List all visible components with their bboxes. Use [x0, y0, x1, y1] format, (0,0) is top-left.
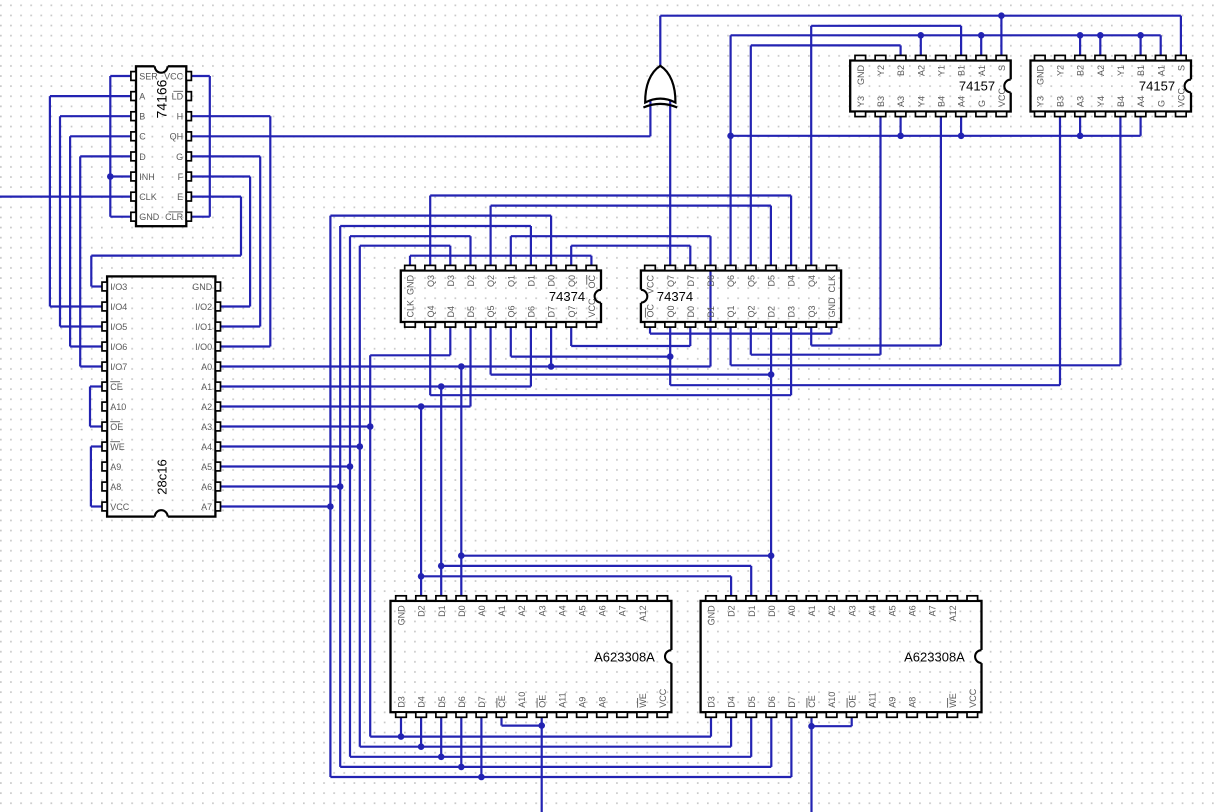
pin A5 (top 10): [887, 596, 898, 601]
pin ~OE (left 8): [102, 422, 107, 431]
svg-text:WE: WE: [110, 442, 125, 452]
svg-text:OE: OE: [537, 695, 547, 708]
svg-text:I/O3: I/O3: [110, 282, 127, 292]
pin A1 (right 6): [215, 382, 220, 391]
svg-text:74166: 74166: [154, 79, 170, 118]
svg-text:A8: A8: [110, 482, 121, 492]
pin A0 (right 5): [215, 362, 220, 371]
svg-text:D4: D4: [787, 275, 797, 287]
svg-text:A2: A2: [916, 65, 926, 76]
svg-text:C: C: [139, 132, 146, 142]
pin ~CLR (right 8): [186, 212, 191, 221]
wire 74374a.Q5 to 74374b.D2 / RAM2 D0: [491, 327, 771, 596]
junction dots of wire 74374b.Q6 select bus to mux A/B inputs: [727, 32, 1144, 139]
wire 74374b OC-GND tie: [650, 327, 831, 334]
pin D6 (bottom 4): [766, 712, 777, 717]
svg-text:D4: D4: [727, 696, 737, 708]
svg-text:S: S: [997, 65, 1007, 71]
pin I/O5 (left 3): [102, 322, 107, 331]
wire 74374b.Q4 to 74157a.B1: [811, 26, 961, 266]
pin B4 (bottom 5): [1115, 112, 1126, 117]
wire 74374b.Q2 to 74157a.B3: [751, 117, 881, 355]
svg-text:A8: A8: [598, 697, 608, 708]
pin A10 (bottom 7): [516, 712, 527, 717]
wire net A4 / RAM D4 rail: [220, 447, 731, 747]
pin nc (bottom 12): [617, 712, 628, 717]
pin D4 (bottom 2): [726, 712, 737, 717]
pin D5 (bottom 3): [436, 712, 447, 717]
svg-text:CE: CE: [807, 695, 817, 708]
pin ~OC (bottom 1): [645, 322, 656, 327]
svg-text:A12: A12: [638, 605, 648, 621]
svg-text:74157: 74157: [1139, 78, 1175, 93]
pin C (left 4): [131, 132, 136, 141]
svg-text:VCC: VCC: [646, 275, 656, 295]
svg-text:VCC: VCC: [110, 502, 130, 512]
pin Q4 (bottom 2): [425, 322, 436, 327]
svg-text:Y2: Y2: [876, 65, 886, 76]
pin D7 (bottom 5): [786, 712, 797, 717]
svg-text:VCC: VCC: [1176, 87, 1186, 107]
pin nc (top 14): [967, 596, 978, 601]
svg-text:A623308A: A623308A: [904, 650, 965, 665]
wire 74374a.Q1 to 74374b.D6: [511, 236, 711, 265]
pin Q7 (bottom 9): [566, 322, 577, 327]
svg-text:A2: A2: [1096, 65, 1106, 76]
svg-text:D6: D6: [767, 696, 777, 708]
svg-text:VCC: VCC: [997, 87, 1007, 107]
pin B3 (bottom 2): [1055, 112, 1066, 117]
pin D4 (bottom 3): [445, 322, 456, 327]
wire 74166.A to 28c16.I/O4: [50, 96, 131, 306]
pin VCC (top 1): [645, 265, 656, 270]
pin Q3 (top 2): [425, 265, 436, 270]
pin Y3 (bottom 1): [1035, 112, 1046, 117]
pin A11 (bottom 9): [557, 712, 568, 717]
pin D0 (top 4): [766, 596, 777, 601]
pin D3 (bottom 1): [706, 712, 717, 717]
pin Q4 (top 9): [806, 265, 817, 270]
svg-text:D5: D5: [466, 306, 476, 318]
svg-text:B3: B3: [1056, 96, 1066, 107]
junction dots of wire XOR output to mux S pins: [998, 12, 1005, 19]
svg-text:I/O5: I/O5: [110, 322, 127, 332]
pin G (bottom 7): [976, 112, 987, 117]
pin Q5 (bottom 5): [485, 322, 496, 327]
svg-text:Y3: Y3: [1035, 96, 1045, 107]
pin A7 (top 12): [617, 596, 628, 601]
svg-text:A11: A11: [557, 692, 567, 707]
junction dots of wire ground tie 74166 SER-INH-GND: [107, 173, 114, 180]
svg-text:Y4: Y4: [1096, 96, 1106, 107]
svg-text:A: A: [139, 92, 145, 102]
pin A3 (bottom 3): [895, 112, 906, 117]
pin F (right 6): [186, 172, 191, 181]
pin Q7 (top 2): [665, 265, 676, 270]
octal latch 74374 U4: [639, 265, 841, 327]
svg-text:74157: 74157: [959, 78, 995, 93]
svg-text:A1: A1: [1156, 65, 1166, 76]
pin Q1 (top 6): [505, 265, 516, 270]
junction dots of wire net A1: [438, 383, 445, 569]
svg-text:A0: A0: [477, 605, 487, 616]
pin A10 (left 7): [102, 402, 107, 411]
svg-text:I/O7: I/O7: [110, 362, 127, 372]
pin D2 (top 2): [416, 596, 427, 601]
svg-text:B1: B1: [957, 65, 967, 76]
wire XOR output to mux S pins: [660, 16, 1181, 67]
wire 74374a.D0 - 28c16.A7 - RAM D7 rail riser: [330, 216, 551, 777]
pin I/O6 (left 4): [102, 342, 107, 351]
svg-text:D1: D1: [747, 605, 757, 617]
svg-text:CLK: CLK: [139, 192, 157, 202]
svg-text:A10: A10: [110, 402, 126, 412]
junction dots of wire RAM2 CE-OE tie to bottom edge: [808, 723, 815, 730]
svg-text:A4: A4: [1136, 96, 1146, 107]
svg-text:Q3: Q3: [807, 305, 817, 317]
wire 74374b.Q3 to 74157a.B4: [811, 117, 941, 346]
pin A2 (top 4): [1095, 55, 1106, 60]
pin D7 (bottom 5): [476, 712, 487, 717]
pin A3 (right 8): [215, 422, 220, 431]
pin Q5 (top 6): [745, 265, 756, 270]
svg-text:H: H: [177, 112, 184, 122]
pin D3 (top 3): [445, 265, 456, 270]
quad mux 74157 U5: [850, 55, 1012, 116]
svg-text:28c16: 28c16: [155, 459, 170, 494]
svg-text:GND: GND: [397, 605, 407, 626]
pin D1 (top 3): [436, 596, 447, 601]
svg-text:A3: A3: [896, 96, 906, 107]
svg-text:GND: GND: [707, 605, 717, 626]
svg-text:A9: A9: [110, 462, 121, 472]
svg-text:A5: A5: [201, 462, 212, 472]
svg-text:A10: A10: [827, 692, 837, 708]
wire 74374a.D1 - 28c16.A6 - RAM D6 rail riser: [340, 226, 531, 767]
svg-text:Q2: Q2: [746, 305, 756, 317]
svg-text:CLR: CLR: [165, 212, 184, 222]
svg-text:CE: CE: [110, 382, 123, 392]
pin A7 (top 12): [927, 596, 938, 601]
svg-text:VCC: VCC: [968, 688, 978, 708]
svg-text:QH: QH: [170, 132, 184, 142]
wire 74374b.Q6 select bus to mux A/B inputs: [731, 35, 1161, 265]
pin A8 (left 11): [102, 482, 107, 491]
svg-text:B4: B4: [937, 96, 947, 107]
pin Q2 (bottom 6): [745, 322, 756, 327]
svg-text:B4: B4: [1116, 96, 1126, 107]
svg-text:Q7: Q7: [666, 275, 676, 287]
wire 74166.G to 28c16.I/O1: [192, 156, 261, 326]
svg-text:Q1: Q1: [726, 305, 736, 317]
pin S (top 8): [1176, 55, 1187, 60]
wire net A1: [220, 327, 751, 596]
pin A1 (top 6): [496, 596, 507, 601]
svg-text:B1: B1: [1136, 65, 1146, 76]
pin D3 (bottom 8): [786, 322, 797, 327]
pin A7 (right 12): [215, 502, 220, 511]
pin A2 (top 7): [516, 596, 527, 601]
wire 74374a.Q7 to 74374b.D0: [571, 327, 690, 346]
svg-text:B2: B2: [896, 65, 906, 76]
pin D2 (top 4): [465, 265, 476, 270]
svg-text:A1: A1: [497, 605, 507, 616]
wire net A6 / RAM D6 rail: [220, 487, 771, 767]
svg-text:S: S: [1176, 65, 1186, 71]
pin D2 (top 2): [726, 596, 737, 601]
pin GND (top 1): [706, 596, 717, 601]
pin I/O2 (right 2): [215, 302, 220, 311]
svg-text:E: E: [177, 192, 183, 202]
pin A2 (right 7): [215, 402, 220, 411]
pin E (right 7): [186, 192, 191, 201]
pin D5 (bottom 3): [746, 712, 757, 717]
pin ~WE (left 9): [102, 442, 107, 451]
pin I/O0 (right 4): [215, 342, 220, 351]
pin A4 (top 9): [557, 596, 568, 601]
pin G (right 5): [186, 152, 191, 161]
svg-text:Y1: Y1: [937, 65, 947, 76]
pin A2 (top 4): [915, 55, 926, 60]
wire 74374a.Q3 to 74374b.D4: [430, 196, 791, 266]
svg-text:Q2: Q2: [486, 275, 496, 287]
wire 74374b.Q1 to 74157b.B4: [731, 117, 1121, 366]
svg-text:G: G: [977, 100, 987, 107]
svg-text:Q0: Q0: [567, 275, 577, 287]
pin Q2 (top 5): [485, 265, 496, 270]
wire net A5 / RAM D5 rail: [220, 467, 751, 757]
SRAM A623308A U8: [701, 596, 984, 718]
svg-text:Q7: Q7: [567, 305, 577, 317]
pin VCC (bottom 10): [586, 322, 597, 327]
junction dots of wire RAM1 CE-OE tie to bottom edge: [538, 722, 545, 729]
junction dots of wire net A3: [367, 423, 404, 740]
pin D6 (bottom 4): [456, 712, 467, 717]
junction dots of wire 74374a.D1 - 28c16.A6 - RAM D6 rail riser: [337, 483, 344, 490]
pin A9 (bottom 10): [577, 712, 588, 717]
svg-text:I/O6: I/O6: [110, 342, 127, 352]
svg-text:OE: OE: [110, 422, 123, 432]
svg-text:A6: A6: [201, 482, 212, 492]
svg-text:F: F: [178, 172, 184, 182]
svg-text:D0: D0: [767, 605, 777, 617]
pin B3 (bottom 2): [875, 112, 886, 117]
svg-text:A623308A: A623308A: [594, 650, 655, 665]
svg-text:Y1: Y1: [1116, 65, 1126, 76]
svg-text:A6: A6: [598, 605, 608, 616]
pin B1 (top 6): [956, 55, 967, 60]
svg-text:D0: D0: [457, 605, 467, 617]
pin A0 (top 5): [786, 596, 797, 601]
svg-text:D5: D5: [767, 275, 777, 287]
pin A1 (top 7): [976, 55, 987, 60]
pin D6 (bottom 7): [526, 322, 537, 327]
pin Q6 (bottom 6): [505, 322, 516, 327]
svg-text:Q6: Q6: [726, 275, 736, 287]
junction dots of wire 74374a.D2 - 28c16.A5 - RAM D5 rail riser: [347, 463, 354, 470]
pin A4 (top 9): [867, 596, 878, 601]
pin D7 (top 3): [685, 265, 696, 270]
pin SER (left 1): [131, 72, 136, 81]
svg-text:CLK: CLK: [827, 275, 837, 293]
wire 74374a.Q4 to 74374b.D3: [430, 327, 791, 395]
svg-text:Y4: Y4: [916, 96, 926, 107]
pin D1 (top 3): [746, 596, 757, 601]
svg-text:D7: D7: [686, 275, 696, 287]
junction dots of wire 74374a.D3 - 28c16.A4 - RAM D4 rail riser: [357, 443, 364, 450]
wire 28c16 WE-VCC tie: [91, 447, 103, 507]
svg-text:B3: B3: [876, 96, 886, 107]
pin ~OE (bottom 8): [536, 712, 547, 717]
pin G (bottom 7): [1155, 112, 1166, 117]
svg-text:Q3: Q3: [426, 275, 436, 287]
pin A2 (top 7): [826, 596, 837, 601]
junction dots of wire 74374a.Q5 to 74374b.D2 / RAM2 D0: [768, 371, 775, 378]
pin A10 (bottom 7): [826, 712, 837, 717]
pin A3 (bottom 3): [1075, 112, 1086, 117]
pin A5 (top 10): [577, 596, 588, 601]
pin A3 (top 8): [846, 596, 857, 601]
wire CLK input to 74166.CLK: [0, 196, 131, 198]
svg-text:A3: A3: [1076, 96, 1086, 107]
pin D0 (bottom 3): [685, 322, 696, 327]
svg-text:A3: A3: [537, 605, 547, 616]
pin Q0 (bottom 2): [665, 322, 676, 327]
svg-text:A7: A7: [928, 605, 938, 616]
svg-text:Q4: Q4: [426, 305, 436, 317]
pin A4 (right 9): [215, 442, 220, 451]
svg-text:GND: GND: [827, 297, 837, 318]
wire 74166.C to 28c16.I/O6: [70, 136, 131, 346]
pin I/O7 (left 5): [102, 362, 107, 371]
svg-text:LD: LD: [172, 92, 184, 102]
shift register 74166 U1: [131, 65, 192, 227]
svg-text:B2: B2: [1076, 65, 1086, 76]
svg-text:WE: WE: [638, 693, 648, 708]
svg-text:A7: A7: [201, 502, 212, 512]
wire RAM2 CE-OE tie to bottom edge: [812, 717, 852, 812]
pin ~WE (bottom 13): [947, 712, 958, 717]
pin I/O3 (left 1): [102, 282, 107, 291]
pin A9 (bottom 10): [887, 712, 898, 717]
svg-text:GND: GND: [192, 282, 213, 292]
pin D6 (top 4): [705, 265, 716, 270]
svg-text:Q5: Q5: [486, 305, 496, 317]
svg-text:A0: A0: [201, 362, 212, 372]
svg-text:D2: D2: [466, 275, 476, 287]
svg-text:D0: D0: [547, 275, 557, 287]
pin D (left 5): [131, 152, 136, 161]
svg-text:I/O0: I/O0: [195, 342, 212, 352]
svg-text:Q1: Q1: [506, 275, 516, 287]
pin D0 (top 8): [546, 265, 557, 270]
svg-text:B: B: [139, 112, 145, 122]
pin D4 (bottom 2): [416, 712, 427, 717]
pin Q0 (top 9): [566, 265, 577, 270]
svg-text:A5: A5: [578, 605, 588, 616]
svg-text:Y2: Y2: [1056, 65, 1066, 76]
svg-text:A1: A1: [977, 65, 987, 76]
svg-text:Q6: Q6: [506, 305, 516, 317]
svg-text:A1: A1: [201, 382, 212, 392]
pin B (left 3): [131, 112, 136, 121]
pin A8 (bottom 11): [597, 712, 608, 717]
svg-text:D4: D4: [446, 306, 456, 318]
pin D1 (bottom 4): [705, 322, 716, 327]
svg-text:A4: A4: [557, 605, 567, 616]
svg-text:A4: A4: [867, 605, 877, 616]
svg-text:OE: OE: [847, 695, 857, 708]
svg-text:OC: OC: [587, 274, 597, 288]
svg-text:A7: A7: [618, 605, 628, 616]
pin D1 (top 7): [526, 265, 537, 270]
pin B2 (top 3): [895, 55, 906, 60]
pin A5 (right 10): [215, 462, 220, 471]
wire 74166.B to 28c16.I/O5: [60, 116, 131, 326]
svg-text:Q0: Q0: [666, 305, 676, 317]
junction dots of wire 74374a.Q6 - 74374b.Q0 - 74157b.B3: [667, 353, 674, 360]
pin A6 (right 11): [215, 482, 220, 491]
pin B1 (top 6): [1135, 55, 1146, 60]
wire net A7 / RAM D7 rail: [220, 507, 792, 778]
svg-text:Y3: Y3: [856, 96, 866, 107]
svg-text:A4: A4: [201, 442, 212, 452]
pin Y3 (bottom 1): [855, 112, 866, 117]
junction dots of wire net A6 / RAM D6 rail: [458, 764, 465, 771]
pin nc (top 14): [657, 596, 668, 601]
pin GND (bottom 10): [826, 322, 837, 327]
svg-text:Q5: Q5: [746, 275, 756, 287]
wire 74374a GND-OC tie: [410, 256, 591, 266]
pin A4 (bottom 6): [1135, 112, 1146, 117]
svg-text:VCC: VCC: [658, 688, 668, 708]
svg-text:D1: D1: [706, 306, 716, 318]
pin A0 (top 5): [476, 596, 487, 601]
wire ground tie 74166 SER-INH-GND: [110, 76, 131, 217]
junction dots of wire net A7 / RAM D7 rail: [478, 774, 485, 781]
svg-text:A3: A3: [847, 605, 857, 616]
svg-text:CE: CE: [497, 695, 507, 708]
pin Y1 (top 5): [936, 55, 947, 60]
junction dots of wire net A5 / RAM D5 rail: [438, 754, 445, 761]
pin Q3 (bottom 9): [806, 322, 817, 327]
svg-text:GND: GND: [139, 212, 160, 222]
pin I/O4 (left 2): [102, 302, 107, 311]
wire 74374a.D3 - 28c16.A4 - RAM D4 rail riser: [360, 246, 451, 747]
svg-text:I/O1: I/O1: [195, 322, 212, 332]
wire 74374a.Q2 to 74374b.D5: [491, 206, 771, 266]
svg-text:74374: 74374: [549, 289, 585, 304]
pin A12 (top 13): [637, 596, 648, 601]
pin CLK (left 7): [131, 192, 136, 201]
svg-text:WE: WE: [948, 693, 958, 708]
svg-text:D0: D0: [686, 306, 696, 318]
pin I/O1 (right 3): [215, 322, 220, 331]
octal latch 74374 U3: [401, 265, 603, 327]
pin QH (right 4): [186, 132, 191, 141]
svg-text:D1: D1: [527, 275, 537, 287]
svg-text:Q4: Q4: [807, 275, 817, 287]
pin A3 (top 8): [536, 596, 547, 601]
wire 74166.D to 28c16.I/O7: [80, 156, 131, 366]
pin D3 (bottom 1): [396, 712, 407, 717]
wire net A0: [220, 265, 771, 595]
pin A8 (bottom 11): [907, 712, 918, 717]
pin ~OC (top 10): [586, 265, 597, 270]
pin VCC (bottom 14): [657, 712, 668, 717]
pin VCC (bottom 8): [1176, 112, 1187, 117]
pin A6 (top 11): [907, 596, 918, 601]
